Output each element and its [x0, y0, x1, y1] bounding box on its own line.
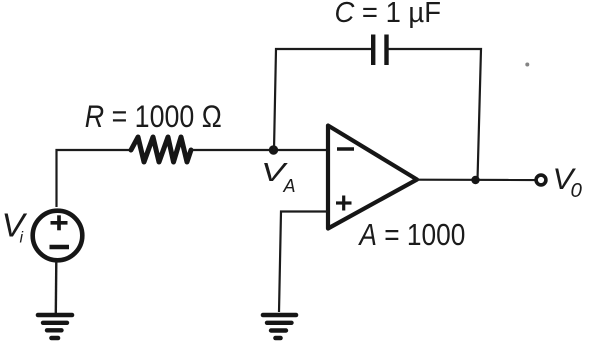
- output node junction dot: [471, 176, 479, 184]
- wire: feedback left vertical: [274, 49, 373, 150]
- node VA junction dot: [269, 145, 278, 154]
- wire: resistor to op-amp inverting input: [191, 149, 328, 151]
- source plus sign: [51, 215, 68, 230]
- wire: non-inverting input to ground: [279, 212, 328, 313]
- source minus sign: [50, 245, 70, 250]
- svg-text:0: 0: [571, 179, 583, 202]
- op-amp minus input sign: [337, 147, 354, 150]
- svg-text:C = 1 µF: C = 1 µF: [335, 0, 442, 29]
- output terminal V0 open circle: [536, 175, 546, 185]
- svg-text:A: A: [283, 176, 296, 196]
- capacitor C1 right plate: [384, 35, 388, 66]
- resistor R = 1000 ohm: [131, 137, 191, 162]
- svg-text:i: i: [20, 230, 24, 247]
- ground under op-amp plus input: [263, 315, 296, 338]
- svg-text:A = 1000: A = 1000: [358, 218, 466, 252]
- wire: feedback top right and right vertical to output: [387, 49, 482, 180]
- ground under source: [38, 315, 72, 338]
- voltage source Vi circle: [33, 211, 83, 261]
- stray scan speck: [525, 63, 529, 67]
- wire: source bottom to ground: [55, 261, 58, 313]
- op-amp U1 triangle: [328, 126, 417, 229]
- op-amp plus input sign: [336, 196, 352, 211]
- svg-text:V: V: [2, 207, 28, 244]
- svg-text:R = 1000 Ω: R = 1000 Ω: [85, 98, 222, 134]
- wire: op-amp output: [416, 179, 536, 182]
- capacitor C1 left plate: [371, 35, 375, 66]
- wire: source top to resistor (input): [57, 150, 132, 207]
